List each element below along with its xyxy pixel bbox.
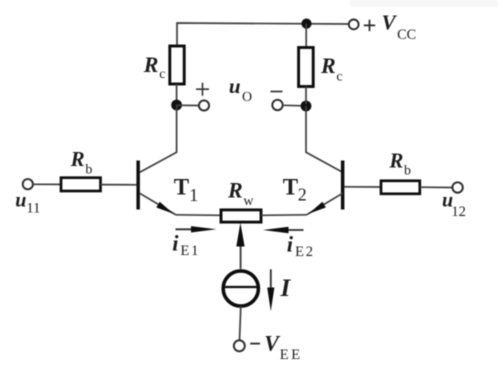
wire collector lead T1 — [140, 105, 177, 172]
terminal -VEE — [234, 340, 245, 351]
svg-text:V: V — [382, 11, 398, 35]
svg-text:b: b — [404, 164, 411, 179]
label + polarity — [196, 83, 209, 96]
terminal input u12 — [452, 182, 462, 192]
svg-text:CC: CC — [397, 27, 416, 43]
arrow iE1 emitter current — [176, 226, 217, 232]
svg-text:R: R — [143, 52, 159, 77]
node dot right output — [301, 101, 312, 112]
resistor Rb (right) body — [381, 181, 420, 194]
svg-text:V: V — [264, 331, 281, 356]
wire emitter T2 to Rw — [261, 214, 307, 217]
wire top rail from left Rc up and across to +VCC terminal — [177, 23, 348, 46]
wire T2 base to Rb right — [344, 186, 381, 188]
svg-text:T: T — [174, 174, 189, 199]
resistor Rb (left) body — [61, 178, 101, 191]
wire left Rc bottom to collector node — [176, 84, 178, 103]
svg-text:11: 11 — [26, 200, 40, 216]
label iE1 — [172, 231, 200, 259]
wire collector lead T2 — [306, 106, 343, 172]
label +VCC — [364, 11, 416, 43]
wire - terminal to right node — [283, 104, 303, 107]
svg-text:b: b — [85, 162, 92, 177]
label Rb (right) — [388, 149, 411, 179]
svg-text:12: 12 — [451, 204, 466, 220]
label u11 — [15, 190, 40, 217]
node dot left output — [171, 100, 182, 111]
svg-text:EE: EE — [280, 347, 303, 363]
resistor Rc (right) body — [299, 48, 314, 87]
terminal input u11 — [23, 179, 33, 189]
wiper arrow from current source into Rw — [236, 223, 244, 269]
transistor T2 emitter with arrow — [307, 193, 343, 214]
resistor Rc (left) body — [170, 46, 184, 84]
wire Rb to T1 base — [101, 184, 137, 186]
svg-text:u: u — [229, 74, 241, 98]
svg-text:I: I — [280, 275, 292, 302]
label T2 — [283, 174, 307, 204]
current source I circle — [223, 271, 258, 306]
potentiometer Rw body — [221, 210, 261, 222]
wire top junction down to right Rc — [305, 24, 307, 48]
svg-text:T: T — [283, 174, 298, 199]
svg-text:R: R — [70, 147, 85, 171]
wire right Rc bottom to right node — [305, 87, 307, 105]
arrow iE2 emitter current — [263, 227, 304, 233]
label iE2 — [287, 231, 315, 260]
label u12 — [442, 190, 466, 220]
label Rw — [227, 177, 254, 209]
label Rc (right) — [320, 53, 343, 85]
label - polarity — [271, 91, 283, 93]
transistor T1 base bar — [136, 161, 140, 210]
terminal - output — [272, 100, 282, 110]
terminal +VCC — [349, 20, 359, 30]
wire input terminal to Rb left — [33, 183, 61, 185]
wire current source to -VEE terminal — [240, 306, 241, 340]
terminal + output — [199, 100, 209, 110]
svg-text:w: w — [243, 194, 254, 209]
transistor T2 base bar — [341, 161, 345, 210]
label Rc (left) — [143, 52, 166, 82]
svg-text:E2: E2 — [295, 244, 315, 260]
arrow I source current — [267, 269, 274, 311]
wire Rb right to terminal — [420, 186, 453, 188]
svg-text:2: 2 — [298, 185, 307, 205]
wire node to + output terminal — [177, 104, 199, 106]
svg-text:O: O — [242, 90, 252, 105]
label uO output voltage — [229, 74, 252, 105]
label -VEE — [250, 331, 303, 363]
label Rb (left) — [70, 147, 93, 177]
svg-text:i: i — [172, 231, 179, 256]
svg-text:u: u — [15, 190, 26, 212]
svg-text:R: R — [388, 149, 403, 173]
transistor T1 emitter with arrow — [140, 193, 176, 214]
svg-text:R: R — [320, 53, 336, 78]
svg-text:R: R — [227, 177, 243, 202]
svg-text:c: c — [159, 67, 165, 82]
svg-text:1: 1 — [189, 185, 198, 205]
node junction dot on top rail above right Rc — [301, 19, 311, 29]
svg-text:c: c — [336, 70, 342, 85]
label T1 — [174, 174, 198, 205]
svg-text:i: i — [287, 231, 294, 256]
wire emitter T1 to Rw — [176, 214, 222, 217]
svg-text:E1: E1 — [181, 243, 201, 259]
